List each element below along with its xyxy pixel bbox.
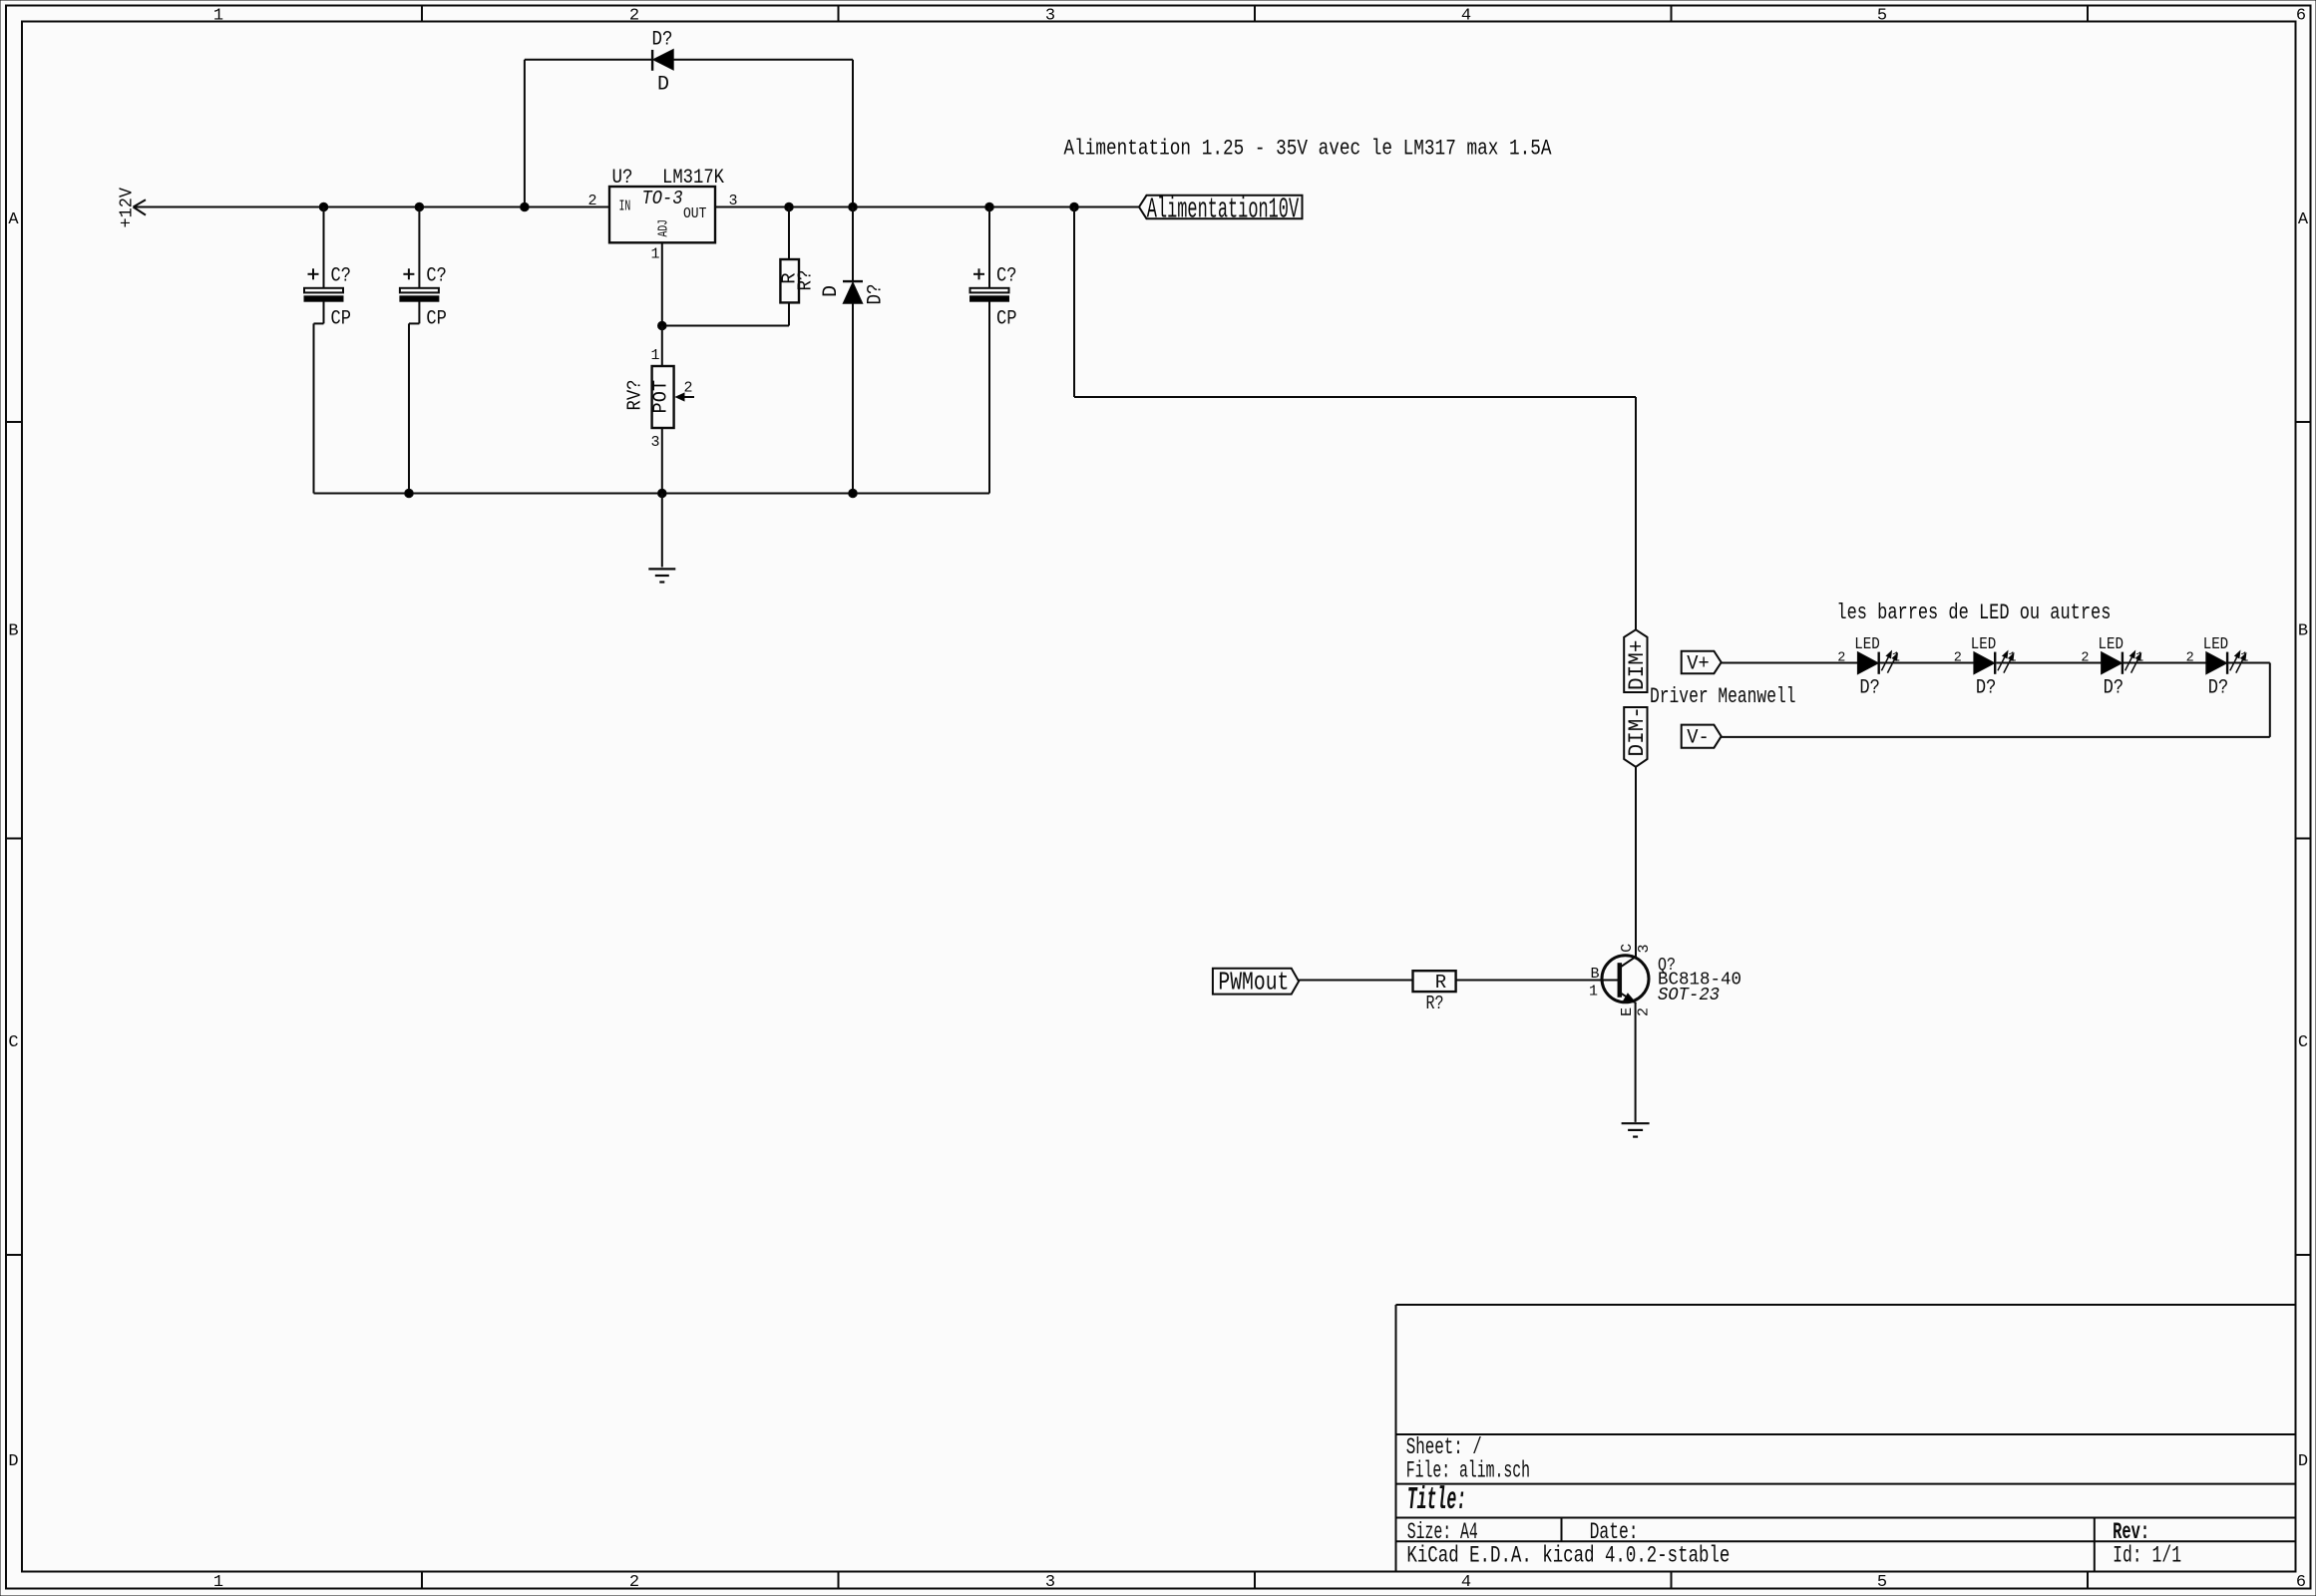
column ticks top xyxy=(422,6,2088,22)
svg-text:5: 5 xyxy=(1877,1573,1887,1592)
resistor R1 ref R? xyxy=(795,270,817,291)
transistor Q1 pin name C xyxy=(1619,944,1636,953)
hierarchical label Alimentation10V text xyxy=(1147,193,1300,225)
power label +12V xyxy=(117,187,138,227)
LED D3 emission arrows xyxy=(2125,650,2143,673)
column label 3 top xyxy=(1045,6,1055,25)
wire rail to ground symbol xyxy=(661,494,663,568)
regulator U1 pin name IN xyxy=(619,199,631,215)
LED D1 value LED xyxy=(1854,635,1880,654)
capacitor C1 ref C? xyxy=(331,265,352,288)
regulator U1 pin number 2 xyxy=(587,193,596,209)
global label PWMout text xyxy=(1218,968,1289,997)
svg-text:D?: D? xyxy=(2208,677,2229,700)
wire DIM- to collector xyxy=(1635,767,1637,958)
svg-text:1: 1 xyxy=(2240,650,2248,665)
svg-text:1: 1 xyxy=(1892,650,1900,665)
svg-text:4: 4 xyxy=(1461,1573,1471,1592)
svg-text:C: C xyxy=(1619,944,1636,953)
global label V- outline xyxy=(1682,725,1722,748)
diode D1 triangle xyxy=(653,49,673,70)
wire D2 bottom xyxy=(852,303,854,493)
diode D2 cathode bar xyxy=(843,280,863,282)
svg-text:LED: LED xyxy=(1971,635,1997,654)
column label 3 bottom xyxy=(1045,1573,1055,1592)
svg-text:6: 6 xyxy=(2296,1573,2306,1592)
junction input caps 2 xyxy=(415,202,424,211)
global label PWMout outline xyxy=(1213,969,1299,995)
row ticks right xyxy=(2296,422,2311,1255)
svg-text:1: 1 xyxy=(213,6,223,25)
LED D1 pin number 1 xyxy=(1892,650,1900,665)
svg-text:DIM-: DIM- xyxy=(1624,706,1650,757)
wire PWMout to R2 xyxy=(1299,980,1412,982)
LED D1 cathode bar xyxy=(1877,652,1879,674)
svg-text:PWMout: PWMout xyxy=(1218,968,1289,997)
LED D1 emission arrows xyxy=(1881,650,1899,673)
wire protection diode loop right xyxy=(673,60,853,207)
svg-text:LM317K: LM317K xyxy=(662,167,724,190)
transistor Q1 value BC818-40 xyxy=(1658,970,1741,991)
hierarchical label DIM- outline xyxy=(1624,707,1647,767)
svg-text:A: A xyxy=(2298,210,2309,229)
svg-text:Rev:: Rev: xyxy=(2113,1519,2149,1545)
svg-text:IN: IN xyxy=(619,199,631,215)
LED D1 triangle xyxy=(1857,652,1878,674)
svg-text:C?: C? xyxy=(996,265,1017,288)
row label D left xyxy=(8,1452,18,1471)
svg-text:1: 1 xyxy=(1589,984,1598,1000)
wire LM317 OUT to label xyxy=(715,206,1139,208)
svg-text:DIM+: DIM+ xyxy=(1624,640,1650,691)
column label 2 top xyxy=(629,6,639,25)
potentiometer RV1 pin number 3 xyxy=(650,434,659,451)
svg-text:File: alim.sch: File: alim.sch xyxy=(1406,1457,1530,1483)
svg-text:3: 3 xyxy=(729,193,738,209)
potentiometer RV1 pin number 1 xyxy=(650,347,659,364)
diode D1 cathode bar xyxy=(651,50,653,71)
LED D1 ref D? xyxy=(1859,677,1880,700)
LED D4 ref D? xyxy=(2208,677,2229,700)
column label 1 top xyxy=(213,6,223,25)
hierarchical label Alimentation10V outline xyxy=(1139,196,1303,219)
svg-text:CP: CP xyxy=(996,308,1017,331)
row label C left xyxy=(8,1033,18,1052)
transistor Q1 ref Q? xyxy=(1658,955,1676,976)
svg-text:D: D xyxy=(657,74,669,97)
transistor Q1 emitter xyxy=(1621,993,1636,1002)
LED D4 triangle xyxy=(2206,652,2227,674)
potentiometer RV1 ref RV? xyxy=(623,380,645,411)
svg-text:E: E xyxy=(1619,1007,1636,1016)
svg-text:2: 2 xyxy=(1837,650,1845,665)
svg-text:2: 2 xyxy=(1636,1007,1653,1016)
wire output down and across xyxy=(1074,207,1636,630)
wire LED2 to LED3 xyxy=(1996,662,2101,664)
wire LED3 to LED4 xyxy=(2123,662,2206,664)
svg-text:Size: A4: Size: A4 xyxy=(1407,1519,1478,1545)
svg-text:Title:: Title: xyxy=(1407,1483,1467,1518)
wire LED1 to LED2 xyxy=(1879,662,1974,664)
junction rail POT xyxy=(658,489,667,498)
note text Alimentation 1.25 - 35V xyxy=(1064,137,1553,162)
svg-text:R?: R? xyxy=(1426,993,1444,1014)
row label B left xyxy=(8,622,18,641)
transistor Q1 footprint SOT-23 xyxy=(1658,985,1720,1005)
svg-text:2: 2 xyxy=(629,1573,639,1592)
svg-text:2: 2 xyxy=(1954,650,1962,665)
title block outline xyxy=(1396,1305,2296,1572)
LED D4 value LED xyxy=(2203,635,2229,654)
title block Size text xyxy=(1407,1519,1478,1545)
resistor R2 ref R? xyxy=(1426,993,1444,1014)
capacitor C2 plus sign xyxy=(403,268,414,279)
svg-text:D: D xyxy=(2298,1452,2308,1471)
svg-text:2: 2 xyxy=(587,193,596,209)
title block KiCad version text xyxy=(1406,1543,1730,1569)
junction loop left xyxy=(521,202,530,211)
LED D1 pin number 2 xyxy=(1837,650,1845,665)
column label 5 bottom xyxy=(1877,1573,1887,1592)
wire +12V to LM317 IN xyxy=(134,206,610,208)
capacitor C2 body and wires xyxy=(400,207,439,494)
LED D2 value LED xyxy=(1971,635,1997,654)
column label 1 bottom xyxy=(213,1573,223,1592)
diode D2 value D xyxy=(820,285,843,297)
svg-text:SOT-23: SOT-23 xyxy=(1658,985,1720,1005)
transistor Q1 circle xyxy=(1602,956,1649,1002)
LED D4 pin number 2 xyxy=(2186,650,2194,665)
svg-text:1: 1 xyxy=(650,347,659,364)
wire R2 to base xyxy=(1456,980,1618,982)
hierarchical label DIM+ text xyxy=(1624,640,1650,691)
potentiometer RV1 body xyxy=(652,366,674,428)
svg-text:2: 2 xyxy=(629,6,639,25)
LED D4 cathode bar xyxy=(2226,652,2228,674)
LED D2 pin number 2 xyxy=(1954,650,1962,665)
LED D2 cathode bar xyxy=(1994,652,1996,674)
svg-text:Driver Meanwell: Driver Meanwell xyxy=(1650,684,1796,709)
global label V+ outline xyxy=(1682,651,1722,674)
svg-text:1: 1 xyxy=(213,1573,223,1592)
wire LED return xyxy=(1722,663,2270,737)
svg-text:3: 3 xyxy=(1636,944,1653,953)
column label 4 top xyxy=(1461,6,1471,25)
diode D1 value D xyxy=(657,74,669,97)
transistor Q1 pin name E xyxy=(1619,1007,1636,1016)
svg-text:1: 1 xyxy=(2135,650,2143,665)
column label 6 top xyxy=(2296,6,2306,25)
transistor Q1 collector xyxy=(1621,957,1636,967)
wire LED4 to corner xyxy=(2228,662,2270,664)
svg-text:V+: V+ xyxy=(1687,652,1710,675)
column ticks bottom xyxy=(422,1572,2088,1589)
hierarchical label DIM+ outline xyxy=(1624,629,1647,692)
svg-text:Alimentation 1.25 - 35V avec l: Alimentation 1.25 - 35V avec le LM317 ma… xyxy=(1064,137,1553,162)
svg-text:1: 1 xyxy=(650,246,659,263)
capacitor C3 ref C? xyxy=(996,265,1017,288)
svg-text:6: 6 xyxy=(2296,6,2306,25)
svg-text:CP: CP xyxy=(331,308,352,331)
resistor R1 value R xyxy=(778,272,800,283)
junction input caps 1 xyxy=(319,202,328,211)
junction C3 top xyxy=(985,202,994,211)
regulator U1 body xyxy=(609,187,715,242)
column label 4 bottom xyxy=(1461,1573,1471,1592)
svg-text:les barres de LED ou autres: les barres de LED ou autres xyxy=(1836,600,2111,625)
resistor R2 value R xyxy=(1435,972,1446,994)
capacitor C2 ref C? xyxy=(426,265,447,288)
svg-text:Id: 1/1: Id: 1/1 xyxy=(2113,1543,2181,1569)
resistor R2 body xyxy=(1413,971,1456,992)
title block Rev label xyxy=(2113,1519,2149,1545)
svg-text:KiCad E.D.A. kicad 4.0.2-stab: KiCad E.D.A. kicad 4.0.2-stable xyxy=(1406,1543,1730,1569)
LED D3 cathode bar xyxy=(2122,652,2123,674)
svg-text:2: 2 xyxy=(683,380,692,397)
junction D2 top xyxy=(849,202,858,211)
transistor Q1 pin number 2 xyxy=(1636,1007,1653,1016)
svg-text:4: 4 xyxy=(1461,6,1471,25)
svg-text:B: B xyxy=(8,622,18,641)
regulator U1 value LM317K xyxy=(662,167,724,190)
title block Title label xyxy=(1407,1483,1467,1518)
svg-text:C: C xyxy=(2298,1033,2308,1052)
resistor R1 body xyxy=(780,259,799,302)
transistor Q1 pin number 3 xyxy=(1636,944,1653,953)
svg-text:V-: V- xyxy=(1687,727,1710,750)
svg-text:LED: LED xyxy=(2099,635,2124,654)
wire emitter down xyxy=(1635,1002,1637,1122)
svg-text:3: 3 xyxy=(650,434,659,451)
svg-text:B: B xyxy=(1590,966,1599,983)
svg-text:C?: C? xyxy=(426,265,447,288)
capacitor C3 value CP xyxy=(996,308,1017,331)
svg-text:LED: LED xyxy=(2203,635,2229,654)
wire ADJ to R bottom xyxy=(662,302,789,325)
svg-text:CP: CP xyxy=(426,308,447,331)
row label C right xyxy=(2298,1033,2308,1052)
svg-text:LED: LED xyxy=(1854,635,1880,654)
LED D3 pin number 2 xyxy=(2081,650,2089,665)
diode D1 ref D? xyxy=(652,29,673,52)
svg-text:R?: R? xyxy=(795,270,817,291)
junction R top xyxy=(785,202,794,211)
svg-text:OUT: OUT xyxy=(683,205,706,222)
column label 5 top xyxy=(1877,6,1887,25)
svg-text:C: C xyxy=(8,1033,18,1052)
potentiometer RV1 pin number 2 xyxy=(683,380,692,397)
column label 6 bottom xyxy=(2296,1573,2306,1592)
svg-text:C?: C? xyxy=(331,265,352,288)
svg-text:D?: D? xyxy=(1859,677,1880,700)
regulator U1 pin number 3 xyxy=(729,193,738,209)
junction rail C2 xyxy=(405,489,414,498)
regulator U1 footprint TO-3 xyxy=(642,188,683,209)
capacitor C1 value CP xyxy=(331,308,352,331)
capacitor C3 body and wires xyxy=(970,207,1009,494)
LED D2 pin number 1 xyxy=(2008,650,2016,665)
capacitor C1 body and wires xyxy=(304,207,343,494)
svg-text:3: 3 xyxy=(1045,6,1055,25)
ground symbol GND2 xyxy=(1622,1123,1650,1136)
LED D2 triangle xyxy=(1974,652,1995,674)
svg-text:D?: D? xyxy=(1976,677,1997,700)
title block Sheet text xyxy=(1406,1434,1482,1460)
regulator U1 pin number 1 ADJ xyxy=(650,246,659,263)
svg-text:TO-3: TO-3 xyxy=(642,188,683,209)
row ticks left xyxy=(6,422,22,1255)
note text Driver Meanwell xyxy=(1650,684,1796,709)
wire ADJ to POT xyxy=(661,326,663,367)
LED D3 ref D? xyxy=(2104,677,2124,700)
regulator U1 pin name OUT xyxy=(683,205,706,222)
power flag +12V arrow xyxy=(134,199,147,214)
wire R top xyxy=(788,207,790,260)
svg-text:1: 1 xyxy=(2008,650,2016,665)
svg-text:Date:: Date: xyxy=(1590,1519,1639,1545)
wire ADJ down xyxy=(661,242,663,325)
svg-text:Alimentation10V: Alimentation10V xyxy=(1147,193,1300,225)
svg-text:U?: U? xyxy=(612,167,633,190)
diode D2 triangle xyxy=(843,282,863,303)
global label V+ text xyxy=(1687,652,1710,675)
hierarchical label DIM- text xyxy=(1624,706,1650,757)
row label D right xyxy=(2298,1452,2308,1471)
LED D4 emission arrows xyxy=(2230,650,2248,673)
svg-text:D?: D? xyxy=(652,29,673,52)
LED D3 triangle xyxy=(2102,652,2123,674)
column label 2 bottom xyxy=(629,1573,639,1592)
LED D2 emission arrows xyxy=(1998,650,2016,673)
wire POT to rail xyxy=(661,428,663,494)
svg-text:POT: POT xyxy=(649,380,671,414)
svg-text:3: 3 xyxy=(1045,1573,1055,1592)
svg-text:D?: D? xyxy=(865,284,888,305)
wire ground rail xyxy=(314,493,990,495)
global label V- text xyxy=(1687,727,1710,750)
regulator U1 ref U? xyxy=(612,167,633,190)
junction rail D2 xyxy=(849,489,858,498)
wire D2 top xyxy=(852,207,854,282)
row label A right xyxy=(2298,210,2309,229)
note text les barres de LED ou autres xyxy=(1836,600,2111,625)
capacitor C1 plus sign xyxy=(308,268,319,279)
row label B right xyxy=(2298,622,2308,641)
title block Date text xyxy=(1590,1519,1639,1545)
svg-text:R: R xyxy=(1435,972,1446,994)
capacitor C2 value CP xyxy=(426,308,447,331)
LED D3 value LED xyxy=(2099,635,2124,654)
LED D2 ref D? xyxy=(1976,677,1997,700)
transistor Q1 pin number 1 xyxy=(1589,984,1598,1000)
wire protection diode loop left xyxy=(525,60,652,207)
svg-text:RV?: RV? xyxy=(623,380,645,411)
svg-text:2: 2 xyxy=(2186,650,2194,665)
junction output corner xyxy=(1070,202,1079,211)
svg-text:A: A xyxy=(8,210,19,229)
svg-text:5: 5 xyxy=(1877,6,1887,25)
capacitor C3 plus sign xyxy=(973,268,984,279)
transistor Q1 pin name B xyxy=(1590,966,1599,983)
junction ADJ node xyxy=(658,321,667,330)
wire V+ to LED1 xyxy=(1722,662,1858,664)
svg-text:D?: D? xyxy=(2104,677,2124,700)
LED D4 pin number 1 xyxy=(2240,650,2248,665)
diode D2 ref D? xyxy=(865,284,888,305)
svg-text:2: 2 xyxy=(2081,650,2089,665)
svg-text:B: B xyxy=(2298,622,2308,641)
ground symbol GND1 xyxy=(648,569,675,582)
LED D3 pin number 1 xyxy=(2135,650,2143,665)
svg-text:D: D xyxy=(8,1452,18,1471)
svg-text:Sheet: /: Sheet: / xyxy=(1406,1434,1482,1460)
svg-text:D: D xyxy=(820,285,843,297)
row label A left xyxy=(8,210,19,229)
svg-text:ADJ: ADJ xyxy=(656,219,672,237)
potentiometer RV1 value POT xyxy=(649,380,671,414)
title block File text xyxy=(1406,1457,1530,1483)
title block Id text xyxy=(2113,1543,2181,1569)
transistor Q1 base bar xyxy=(1618,963,1623,997)
regulator U1 pin name ADJ xyxy=(656,219,672,237)
potentiometer RV1 wiper arrow xyxy=(676,393,694,401)
